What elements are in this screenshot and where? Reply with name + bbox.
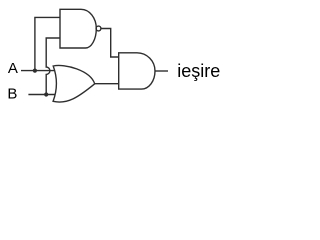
node A junction dot (33, 69, 37, 73)
nand gate U1 inversion bubble (96, 26, 101, 31)
svg-text:A: A (8, 60, 18, 77)
wire OR output to AND bottom input (95, 83, 119, 85)
wire input B horizontal (28, 94, 55, 96)
svg-text:B: B (7, 86, 17, 103)
and gate U3 body (119, 53, 155, 89)
node B junction dot (44, 92, 48, 96)
or gate U2 body (53, 65, 95, 102)
wire input A horizontal (21, 70, 55, 72)
svg-text:ieşire: ieşire (177, 61, 220, 81)
wire AND output (155, 70, 168, 72)
wire A branch to NAND top input (35, 17, 60, 70)
nand gate U1 body (60, 9, 96, 48)
wire B branch to NAND bottom input (with hop over A wire) (46, 38, 60, 95)
wire NAND output to AND top input (101, 29, 119, 58)
